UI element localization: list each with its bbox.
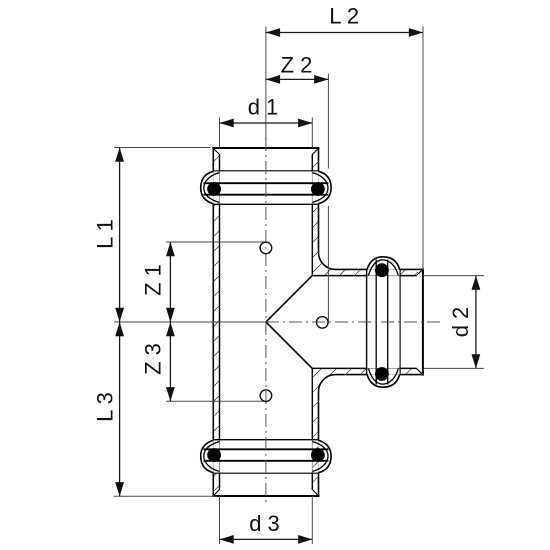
svg-text:Z 3: Z 3 [141, 343, 166, 375]
node Z3 reference point [260, 390, 272, 402]
pipe left outer wall [212, 204, 214, 439]
L3 dimension line [119, 322, 121, 496]
branch axis extension line [114, 321, 266, 323]
pipe left inner wall [219, 203, 221, 440]
branch lower inner wall [312, 367, 367, 369]
d2 extension lines [424, 275, 484, 277]
upper fillet [319, 252, 336, 269]
branch lower outer wall [335, 374, 368, 376]
d2 dimension line [475, 276, 477, 369]
d1 extension lines [219, 118, 221, 149]
branch upper inner wall [312, 275, 367, 277]
svg-text:d 3: d 3 [249, 511, 280, 536]
Z1 extension line [166, 241, 266, 243]
svg-text:Z 1: Z 1 [141, 264, 166, 296]
d3 dimension line [220, 538, 313, 540]
Z3 dimension line [169, 322, 171, 401]
branch press end with O-ring seals [367, 257, 423, 387]
L3 bottom extension line [114, 495, 218, 497]
Z2 dimension line [266, 78, 329, 80]
L1 top extension line [114, 147, 210, 149]
svg-text:d 1: d 1 [248, 95, 279, 120]
node Z2 reference point [317, 317, 329, 329]
bottom press end with O-ring seals [201, 440, 331, 496]
svg-text:L 3: L 3 [93, 392, 118, 422]
branch centerline [266, 321, 440, 323]
d3 extension lines [219, 496, 221, 544]
L2 dimension line [266, 32, 423, 34]
Z2 right extension line [327, 74, 329, 169]
node Z1 reference point [260, 242, 272, 254]
svg-text:Z 2: Z 2 [281, 53, 313, 78]
d1 dimension line [220, 122, 313, 124]
pipe right inner wall [311, 203, 313, 275]
branch bore cone [266, 276, 312, 369]
Z1 dimension line [169, 242, 171, 322]
Z3 extension line [166, 400, 266, 402]
L1 dimension line [119, 148, 121, 323]
branch upper outer wall [335, 268, 368, 270]
svg-text:L 1: L 1 [93, 219, 118, 249]
L2 Z2 left extension line [265, 27, 267, 141]
top press end with O-ring seals [201, 148, 331, 204]
L2 right extension line [422, 27, 424, 270]
vertical centerline [265, 138, 267, 505]
hatched wall sections [213, 153, 219, 171]
lower fillet [319, 375, 336, 392]
svg-text:L 2: L 2 [329, 4, 359, 29]
pipe right outer wall [318, 204, 320, 252]
svg-text:d 2: d 2 [448, 307, 473, 338]
